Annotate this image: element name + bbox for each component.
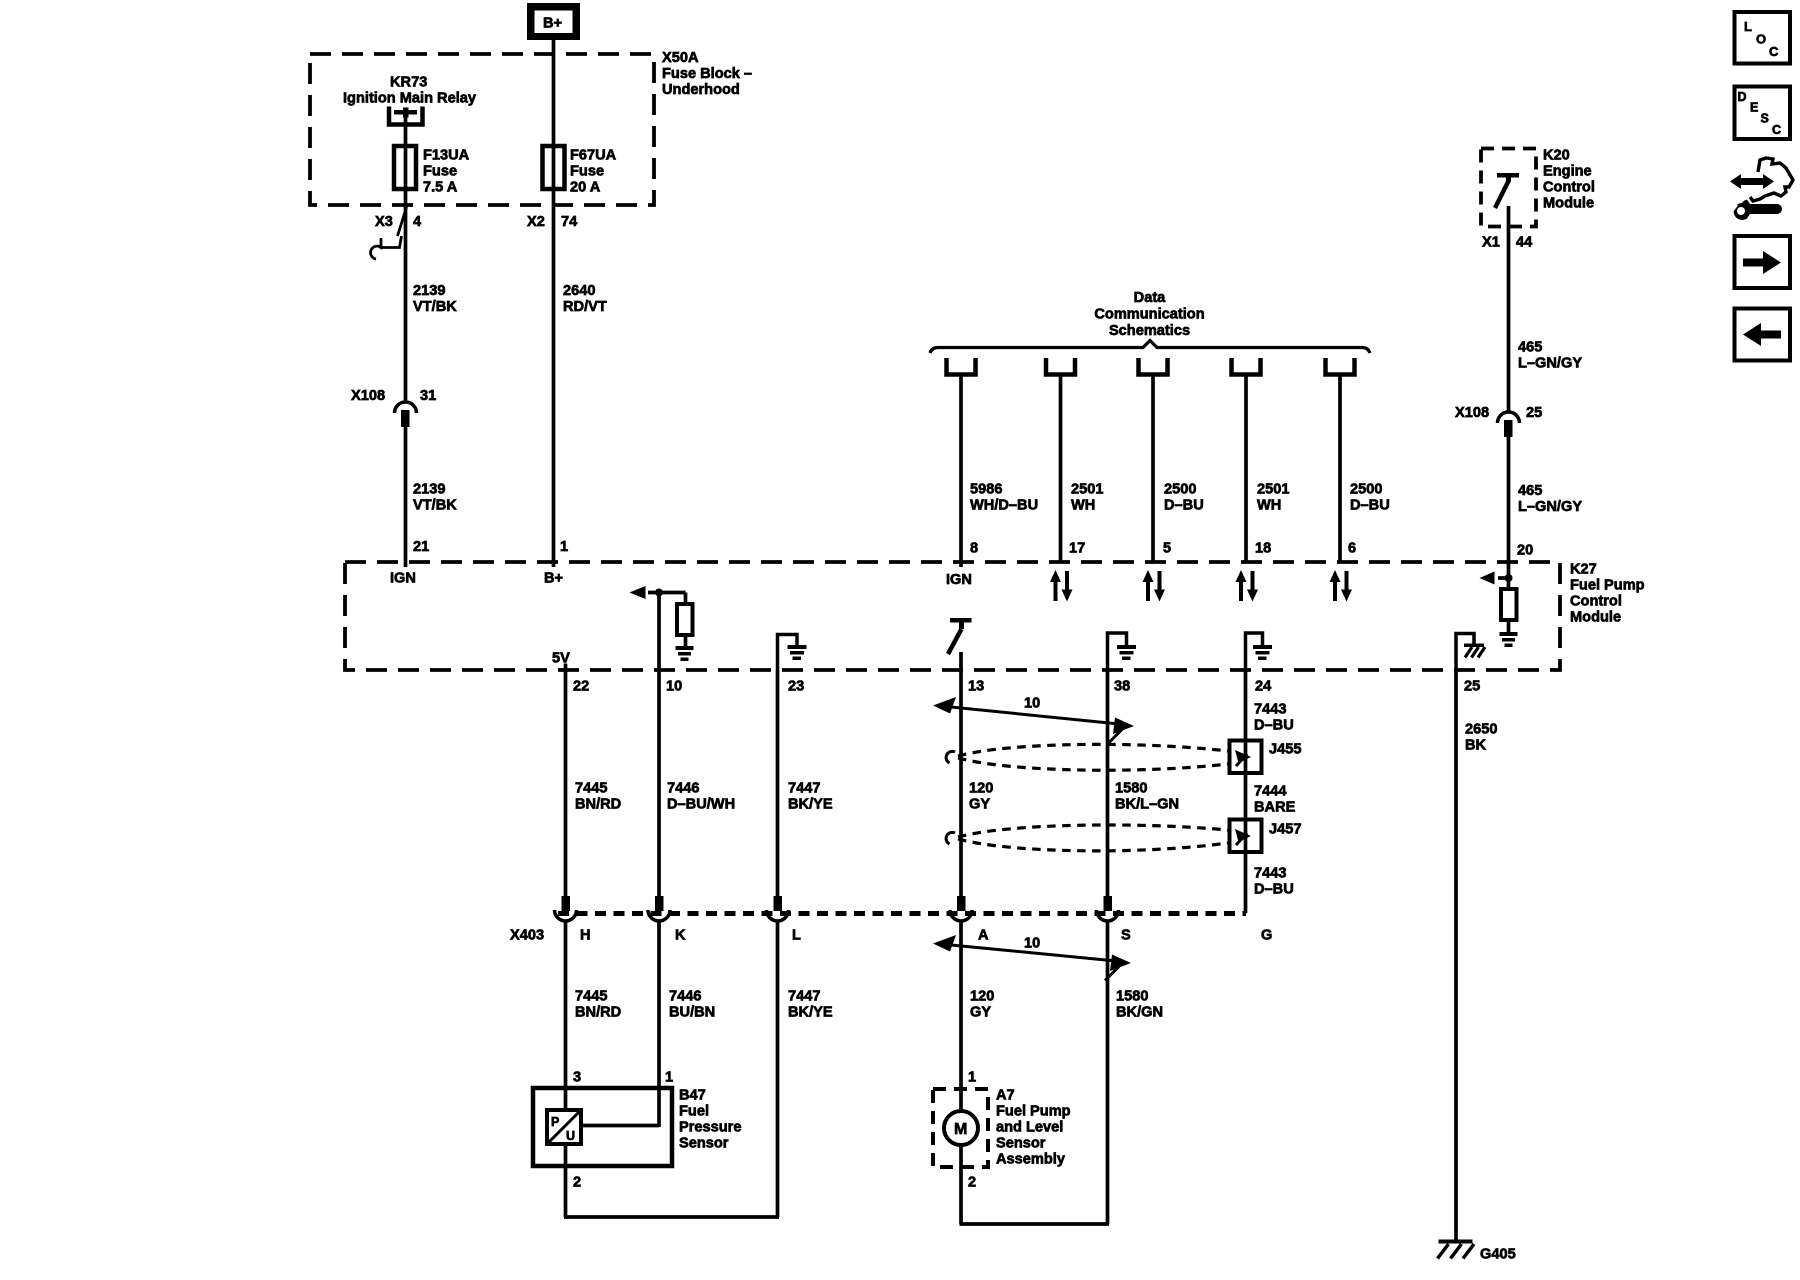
connector X403 terminal A: [950, 896, 972, 921]
svg-text:D: D: [1738, 90, 1747, 104]
wire X403 H to B47 pin 3 (7445 BN/RD): [564, 921, 568, 1110]
label wire 7446 D-BU/WH: [667, 781, 735, 813]
label wire 465 L-GN/GY upper: [1518, 340, 1582, 372]
svg-text:1: 1: [665, 1070, 673, 1086]
svg-text:7445: 7445: [575, 989, 607, 1005]
wire K20 switch to X1 pin 44: [1507, 206, 1511, 412]
svg-text:K: K: [675, 928, 686, 944]
nav icon back arrow box: [1735, 309, 1791, 361]
svg-text:2501: 2501: [1257, 482, 1289, 498]
wire from B+ to fuse F67UA: [552, 40, 556, 146]
svg-text:D–BU: D–BU: [1254, 718, 1294, 734]
svg-text:Control: Control: [1570, 594, 1622, 610]
shield drain dashed pair to J457: [946, 825, 1228, 851]
svg-text:A7: A7: [996, 1088, 1015, 1104]
svg-text:RD/VT: RD/VT: [563, 299, 607, 315]
power node B+: [527, 3, 580, 40]
sensor B47 box: [533, 1088, 672, 1166]
svg-text:X3: X3: [375, 214, 393, 230]
svg-text:S: S: [1761, 112, 1769, 126]
wire K27 pin 24 to splice J455 (7443 D-BU upper): [1244, 670, 1248, 742]
wire K27 pin 13 to X403 A (120 GY): [959, 670, 963, 896]
label wire 7445 BN/RD: [575, 781, 621, 813]
svg-text:Fuel Pump: Fuel Pump: [996, 1104, 1071, 1120]
svg-text:44: 44: [1516, 235, 1533, 251]
label wire 2139 VT/BK lower: [413, 482, 457, 514]
svg-text:2650: 2650: [1465, 722, 1497, 738]
svg-text:G: G: [1261, 928, 1272, 944]
svg-text:20: 20: [1517, 543, 1533, 559]
wire bus drop to K27 pin 17 (2501 WH): [1059, 376, 1063, 562]
svg-text:K27: K27: [1570, 562, 1597, 578]
wire bus drop to K27 pin 5 (2500 D-BU): [1151, 376, 1155, 562]
svg-text:Module: Module: [1543, 196, 1594, 212]
nav icon LOC box: [1735, 12, 1791, 64]
K27 internal switch pin 13: [948, 618, 972, 670]
svg-text:1580: 1580: [1115, 781, 1147, 797]
svg-text:7445: 7445: [575, 781, 607, 797]
svg-text:8: 8: [970, 541, 978, 557]
wire K27 pin 10 to X403 K (7446 D-BU/WH): [657, 670, 661, 896]
svg-text:and Level: and Level: [996, 1120, 1063, 1136]
bus drop symbol pin 17: [1046, 358, 1075, 375]
bus drop symbol pin 5: [1139, 358, 1168, 375]
svg-text:Ignition Main Relay: Ignition Main Relay: [343, 91, 477, 107]
label wire 7443 D-BU upper: [1254, 702, 1294, 734]
bus up/down arrows pin 5: [1143, 570, 1166, 602]
svg-text:31: 31: [420, 388, 436, 404]
svg-text:VT/BK: VT/BK: [413, 498, 457, 514]
svg-text:7446: 7446: [667, 781, 699, 797]
svg-text:Sensor: Sensor: [996, 1136, 1046, 1152]
svg-text:WH: WH: [1071, 498, 1095, 514]
svg-text:7446: 7446: [669, 989, 701, 1005]
label X108 31: [351, 388, 436, 404]
svg-text:F67UA: F67UA: [570, 148, 617, 164]
svg-text:H: H: [580, 928, 591, 944]
label X50A Fuse Block - Underhood: [662, 50, 752, 98]
svg-text:Pressure: Pressure: [679, 1120, 741, 1136]
svg-text:BU/BN: BU/BN: [669, 1005, 715, 1021]
svg-text:WH: WH: [1257, 498, 1281, 514]
B47 internal P/U transducer: [547, 1110, 581, 1144]
label X1 44: [1482, 235, 1533, 251]
svg-text:7447: 7447: [788, 781, 820, 797]
label wire 7447 BK/YE lower: [788, 989, 833, 1021]
svg-text:BK/GN: BK/GN: [1116, 1005, 1163, 1021]
bus drop symbol pin 6: [1326, 358, 1355, 375]
label K20 Engine Control Module: [1543, 148, 1595, 212]
label wire 2650 BK: [1465, 722, 1497, 754]
svg-text:10: 10: [666, 679, 682, 695]
nav icon vehicle/wrench: [1724, 158, 1794, 220]
label A7 Fuel Pump and Level Sensor Assembly: [996, 1088, 1071, 1168]
K27 internal circuit pin 10: arrow, resistor, ground: [630, 586, 694, 661]
fuse block X50A box: [310, 54, 654, 205]
svg-text:74: 74: [561, 214, 578, 230]
svg-text:X50A: X50A: [662, 50, 699, 66]
label wire 2501 WH (pin 17): [1071, 482, 1103, 514]
connector X403 terminal S: [1097, 896, 1119, 921]
label wire 120 GY lower: [970, 989, 994, 1021]
svg-text:465: 465: [1518, 340, 1542, 356]
svg-text:IGN: IGN: [390, 571, 416, 587]
module K27 Fuel Pump Control Module box: [345, 562, 1560, 670]
wire A7 pin 2 down: [959, 1145, 963, 1224]
wire X403 K to B47 pin 1 (7446 BU/BN): [657, 921, 661, 1127]
assembly A7 box: [933, 1089, 988, 1167]
svg-text:X403: X403: [510, 928, 544, 944]
svg-text:BK/L–GN: BK/L–GN: [1115, 797, 1179, 813]
svg-text:U: U: [566, 1129, 575, 1143]
svg-text:120: 120: [969, 781, 993, 797]
svg-text:IGN: IGN: [946, 572, 972, 588]
svg-text:23: 23: [788, 679, 804, 695]
connector X403 terminal K: [648, 896, 670, 921]
svg-text:D–BU: D–BU: [1254, 882, 1294, 898]
label wire 5986 WH/D-BU: [970, 482, 1038, 514]
svg-text:18: 18: [1255, 541, 1271, 557]
bus up/down arrows pin 17: [1050, 570, 1073, 602]
svg-text:2500: 2500: [1164, 482, 1196, 498]
wire X403 A to A7 pin 1 (120 GY): [959, 921, 963, 1111]
svg-text:6: 6: [1348, 541, 1356, 557]
svg-text:10: 10: [1024, 696, 1040, 712]
svg-text:O: O: [1756, 32, 1766, 47]
label wire 7444 BARE: [1254, 784, 1296, 816]
label wire 7445 BN/RD lower: [575, 989, 621, 1021]
label wire 7443 D-BU lower: [1254, 866, 1294, 898]
svg-text:2500: 2500: [1350, 482, 1382, 498]
label wire 7446 BU/BN: [669, 989, 715, 1021]
nav icon DESC box: [1735, 87, 1791, 140]
svg-text:X2: X2: [527, 214, 545, 230]
wire K27 internal junction to pin 10: [657, 593, 661, 671]
label wire 2501 WH (pin 18): [1257, 482, 1289, 514]
fuse F13UA: [394, 146, 416, 189]
label wire 2640 RD/VT: [563, 283, 607, 315]
connector X403 terminal L: [767, 896, 789, 921]
svg-text:B47: B47: [679, 1088, 706, 1104]
svg-text:1580: 1580: [1116, 989, 1148, 1005]
svg-text:7.5 A: 7.5 A: [423, 180, 458, 196]
splice J457: [1230, 819, 1262, 853]
svg-text:VT/BK: VT/BK: [413, 299, 457, 315]
svg-text:A: A: [978, 928, 989, 944]
label K27 Fuel Pump Control Module: [1570, 562, 1645, 626]
label KR73 Ignition Main Relay: [343, 75, 477, 107]
bus drop symbol pin 18: [1232, 358, 1261, 375]
A7 fuel pump motor M: [944, 1111, 978, 1145]
module K20 Engine Control Module box: [1481, 149, 1536, 227]
svg-text:L: L: [1744, 19, 1752, 34]
svg-text:7443: 7443: [1254, 866, 1286, 882]
svg-text:F13UA: F13UA: [423, 148, 470, 164]
svg-text:P: P: [551, 1115, 559, 1129]
svg-text:25: 25: [1464, 679, 1480, 695]
svg-text:BK/YE: BK/YE: [788, 797, 833, 813]
wire K27 pin 23 to X403 L (7447 BK/YE): [776, 670, 780, 896]
svg-text:22: 22: [573, 679, 589, 695]
svg-text:Data: Data: [1134, 290, 1167, 306]
wire X108 to K27 pin 21 (2139 VT/BK lower): [404, 427, 408, 567]
svg-text:X108: X108: [351, 388, 385, 404]
connector X108 terminal 25: [1498, 412, 1520, 437]
svg-text:13: 13: [968, 679, 984, 695]
svg-text:WH/D–BU: WH/D–BU: [970, 498, 1038, 514]
svg-text:2: 2: [573, 1175, 581, 1191]
wire X108 to K27 pin 20 (465 L-GN/GY lower): [1507, 437, 1511, 578]
wire B47 pin 1 internal to P/U: [581, 1124, 659, 1128]
svg-text:S: S: [1121, 928, 1131, 944]
svg-text:25: 25: [1526, 405, 1542, 421]
splice J455: [1230, 740, 1262, 774]
svg-text:J457: J457: [1269, 822, 1301, 838]
svg-text:M: M: [954, 1121, 967, 1138]
svg-text:J455: J455: [1269, 742, 1301, 758]
svg-text:Module: Module: [1570, 610, 1621, 626]
wire F67UA to K27 pin 1 (2640 RD/VT): [552, 189, 556, 567]
svg-text:17: 17: [1069, 541, 1085, 557]
label wire 1580 BK/L-GN: [1115, 781, 1179, 813]
K20 internal switch contact: [1495, 173, 1519, 208]
svg-text:120: 120: [970, 989, 994, 1005]
svg-text:10: 10: [1024, 936, 1040, 952]
svg-text:KR73: KR73: [390, 75, 427, 91]
K27 internal chassis ground pin 25: [1456, 634, 1485, 671]
K27 internal circuit pin 20: arrow, resistor, ground: [1480, 572, 1518, 648]
svg-text:38: 38: [1114, 679, 1130, 695]
label X3 4: [375, 214, 422, 230]
svg-text:K20: K20: [1543, 148, 1570, 164]
svg-text:Fuel: Fuel: [679, 1104, 709, 1120]
twisted pair crossing arrow lower with label 10: [933, 935, 1131, 981]
data communication brace: [930, 341, 1370, 354]
K27 internal ground pin 38: [1108, 633, 1137, 670]
bus up/down arrows pin 6: [1330, 570, 1353, 602]
svg-text:3: 3: [573, 1070, 581, 1086]
svg-text:L–GN/GY: L–GN/GY: [1518, 356, 1582, 372]
label wire 2500 D-BU (pin 5): [1164, 482, 1204, 514]
bus up/down arrows pin 18: [1236, 570, 1259, 602]
svg-text:BK/YE: BK/YE: [788, 1005, 833, 1021]
wire X403 L down (7447 BK/YE): [776, 921, 780, 1217]
wire bus drop to K27 pin 8 (5986 WH/D-BU): [959, 376, 963, 567]
svg-text:BK: BK: [1465, 738, 1487, 754]
label wire 2139 VT/BK upper: [413, 283, 457, 315]
svg-text:20 A: 20 A: [570, 180, 601, 196]
svg-text:Control: Control: [1543, 180, 1595, 196]
svg-text:4: 4: [413, 214, 422, 230]
K27 internal ground pin 24: [1246, 633, 1273, 670]
svg-text:X1: X1: [1482, 235, 1500, 251]
wire J455 to J457 (7444 BARE): [1244, 772, 1248, 821]
nav icon forward arrow box: [1735, 236, 1791, 288]
svg-text:Communication: Communication: [1094, 306, 1204, 322]
wire bus drop to K27 pin 6 (2500 D-BU): [1338, 376, 1342, 562]
svg-text:2139: 2139: [413, 482, 445, 498]
svg-text:L–GN/GY: L–GN/GY: [1518, 499, 1582, 515]
twisted pair crossing arrow upper with label 10: [933, 697, 1134, 744]
connector X403 terminal H: [555, 896, 577, 921]
svg-text:GY: GY: [969, 797, 990, 813]
bus drop symbol pin 8: [947, 358, 976, 375]
shield drain dashed pair to J455: [946, 744, 1228, 770]
svg-text:Sensor: Sensor: [679, 1136, 729, 1152]
svg-text:465: 465: [1518, 483, 1542, 499]
wire A7 pin 2 to 1580 (bottom link): [960, 1222, 1110, 1226]
label wire 1580 BK/GN: [1116, 989, 1163, 1021]
svg-text:B+: B+: [544, 571, 563, 587]
svg-text:C: C: [1772, 123, 1781, 137]
K27 internal ground pin 23: [778, 635, 807, 671]
label wire 120 GY: [969, 781, 993, 813]
svg-text:21: 21: [413, 539, 429, 555]
label wire 2500 D-BU (pin 6): [1350, 482, 1390, 514]
wire from relay to fuse F13UA: [404, 114, 408, 146]
wire F13UA to X108 (2139 VT/BK upper): [404, 189, 408, 402]
wire K27 pin 22 to X403 H (7445 BN/RD): [564, 664, 568, 897]
svg-text:7444: 7444: [1254, 784, 1287, 800]
svg-text:E: E: [1750, 101, 1758, 115]
svg-text:Assembly: Assembly: [996, 1152, 1066, 1168]
svg-text:1: 1: [968, 1070, 976, 1086]
wire J457 to X403 G (7443 D-BU lower): [1244, 851, 1248, 913]
svg-text:2640: 2640: [563, 283, 595, 299]
svg-text:G405: G405: [1480, 1247, 1516, 1263]
svg-text:C: C: [1769, 44, 1779, 59]
fuse F67UA: [543, 146, 565, 189]
wire B47 pin 2 to 7447 (bottom link): [564, 1215, 779, 1219]
label X2 74: [527, 214, 578, 230]
svg-text:L: L: [792, 928, 801, 944]
svg-text:Engine: Engine: [1543, 164, 1592, 180]
connector X403 dotted line: [558, 911, 1246, 916]
svg-text:D–BU: D–BU: [1164, 498, 1204, 514]
label F67UA Fuse 20 A: [570, 148, 617, 196]
label X108 25 (right): [1455, 405, 1542, 421]
svg-text:BARE: BARE: [1254, 800, 1296, 816]
wire bus drop to K27 pin 18 (2501 WH): [1244, 376, 1248, 562]
connector X3 terminal 4 symbol: [371, 207, 407, 259]
svg-text:Fuse Block –: Fuse Block –: [662, 66, 752, 82]
svg-text:B+: B+: [543, 16, 562, 32]
svg-text:X108: X108: [1455, 405, 1489, 421]
svg-text:Underhood: Underhood: [662, 82, 740, 98]
wire X403 S down (1580 BK/GN): [1106, 921, 1110, 1224]
relay KR73 contact symbol: [389, 107, 423, 125]
svg-text:D–BU: D–BU: [1350, 498, 1390, 514]
svg-text:Fuel Pump: Fuel Pump: [1570, 578, 1645, 594]
svg-text:BN/RD: BN/RD: [575, 1005, 621, 1021]
wire B47 pin 2 from P/U down: [564, 1144, 568, 1217]
svg-text:Fuse: Fuse: [423, 164, 457, 180]
svg-text:5: 5: [1163, 541, 1171, 557]
svg-text:2: 2: [968, 1175, 976, 1191]
label wire 7447 BK/YE: [788, 781, 833, 813]
svg-text:7447: 7447: [788, 989, 820, 1005]
label F13UA Fuse 7.5 A: [423, 148, 470, 196]
svg-text:BN/RD: BN/RD: [575, 797, 621, 813]
svg-text:5986: 5986: [970, 482, 1002, 498]
svg-text:GY: GY: [970, 1005, 991, 1021]
svg-text:24: 24: [1255, 679, 1272, 695]
svg-text:5V: 5V: [552, 651, 570, 667]
svg-text:2139: 2139: [413, 283, 445, 299]
wire K27 pin 25 to G405 (2650 BK): [1454, 670, 1458, 1241]
label B47 Fuel Pressure Sensor: [679, 1088, 741, 1152]
svg-text:Fuse: Fuse: [570, 164, 604, 180]
ground G405: [1438, 1240, 1475, 1259]
svg-text:1: 1: [560, 539, 568, 555]
svg-text:D–BU/WH: D–BU/WH: [667, 797, 735, 813]
svg-text:7443: 7443: [1254, 702, 1286, 718]
svg-text:2501: 2501: [1071, 482, 1103, 498]
label wire 465 L-GN/GY lower: [1518, 483, 1582, 515]
svg-text:Schematics: Schematics: [1109, 323, 1190, 339]
label Data Communication Schematics: [1094, 290, 1204, 339]
connector X108 terminal 31: [395, 402, 417, 427]
wire K27 pin 38 to X403 S (1580 BK/L-GN): [1106, 670, 1110, 896]
